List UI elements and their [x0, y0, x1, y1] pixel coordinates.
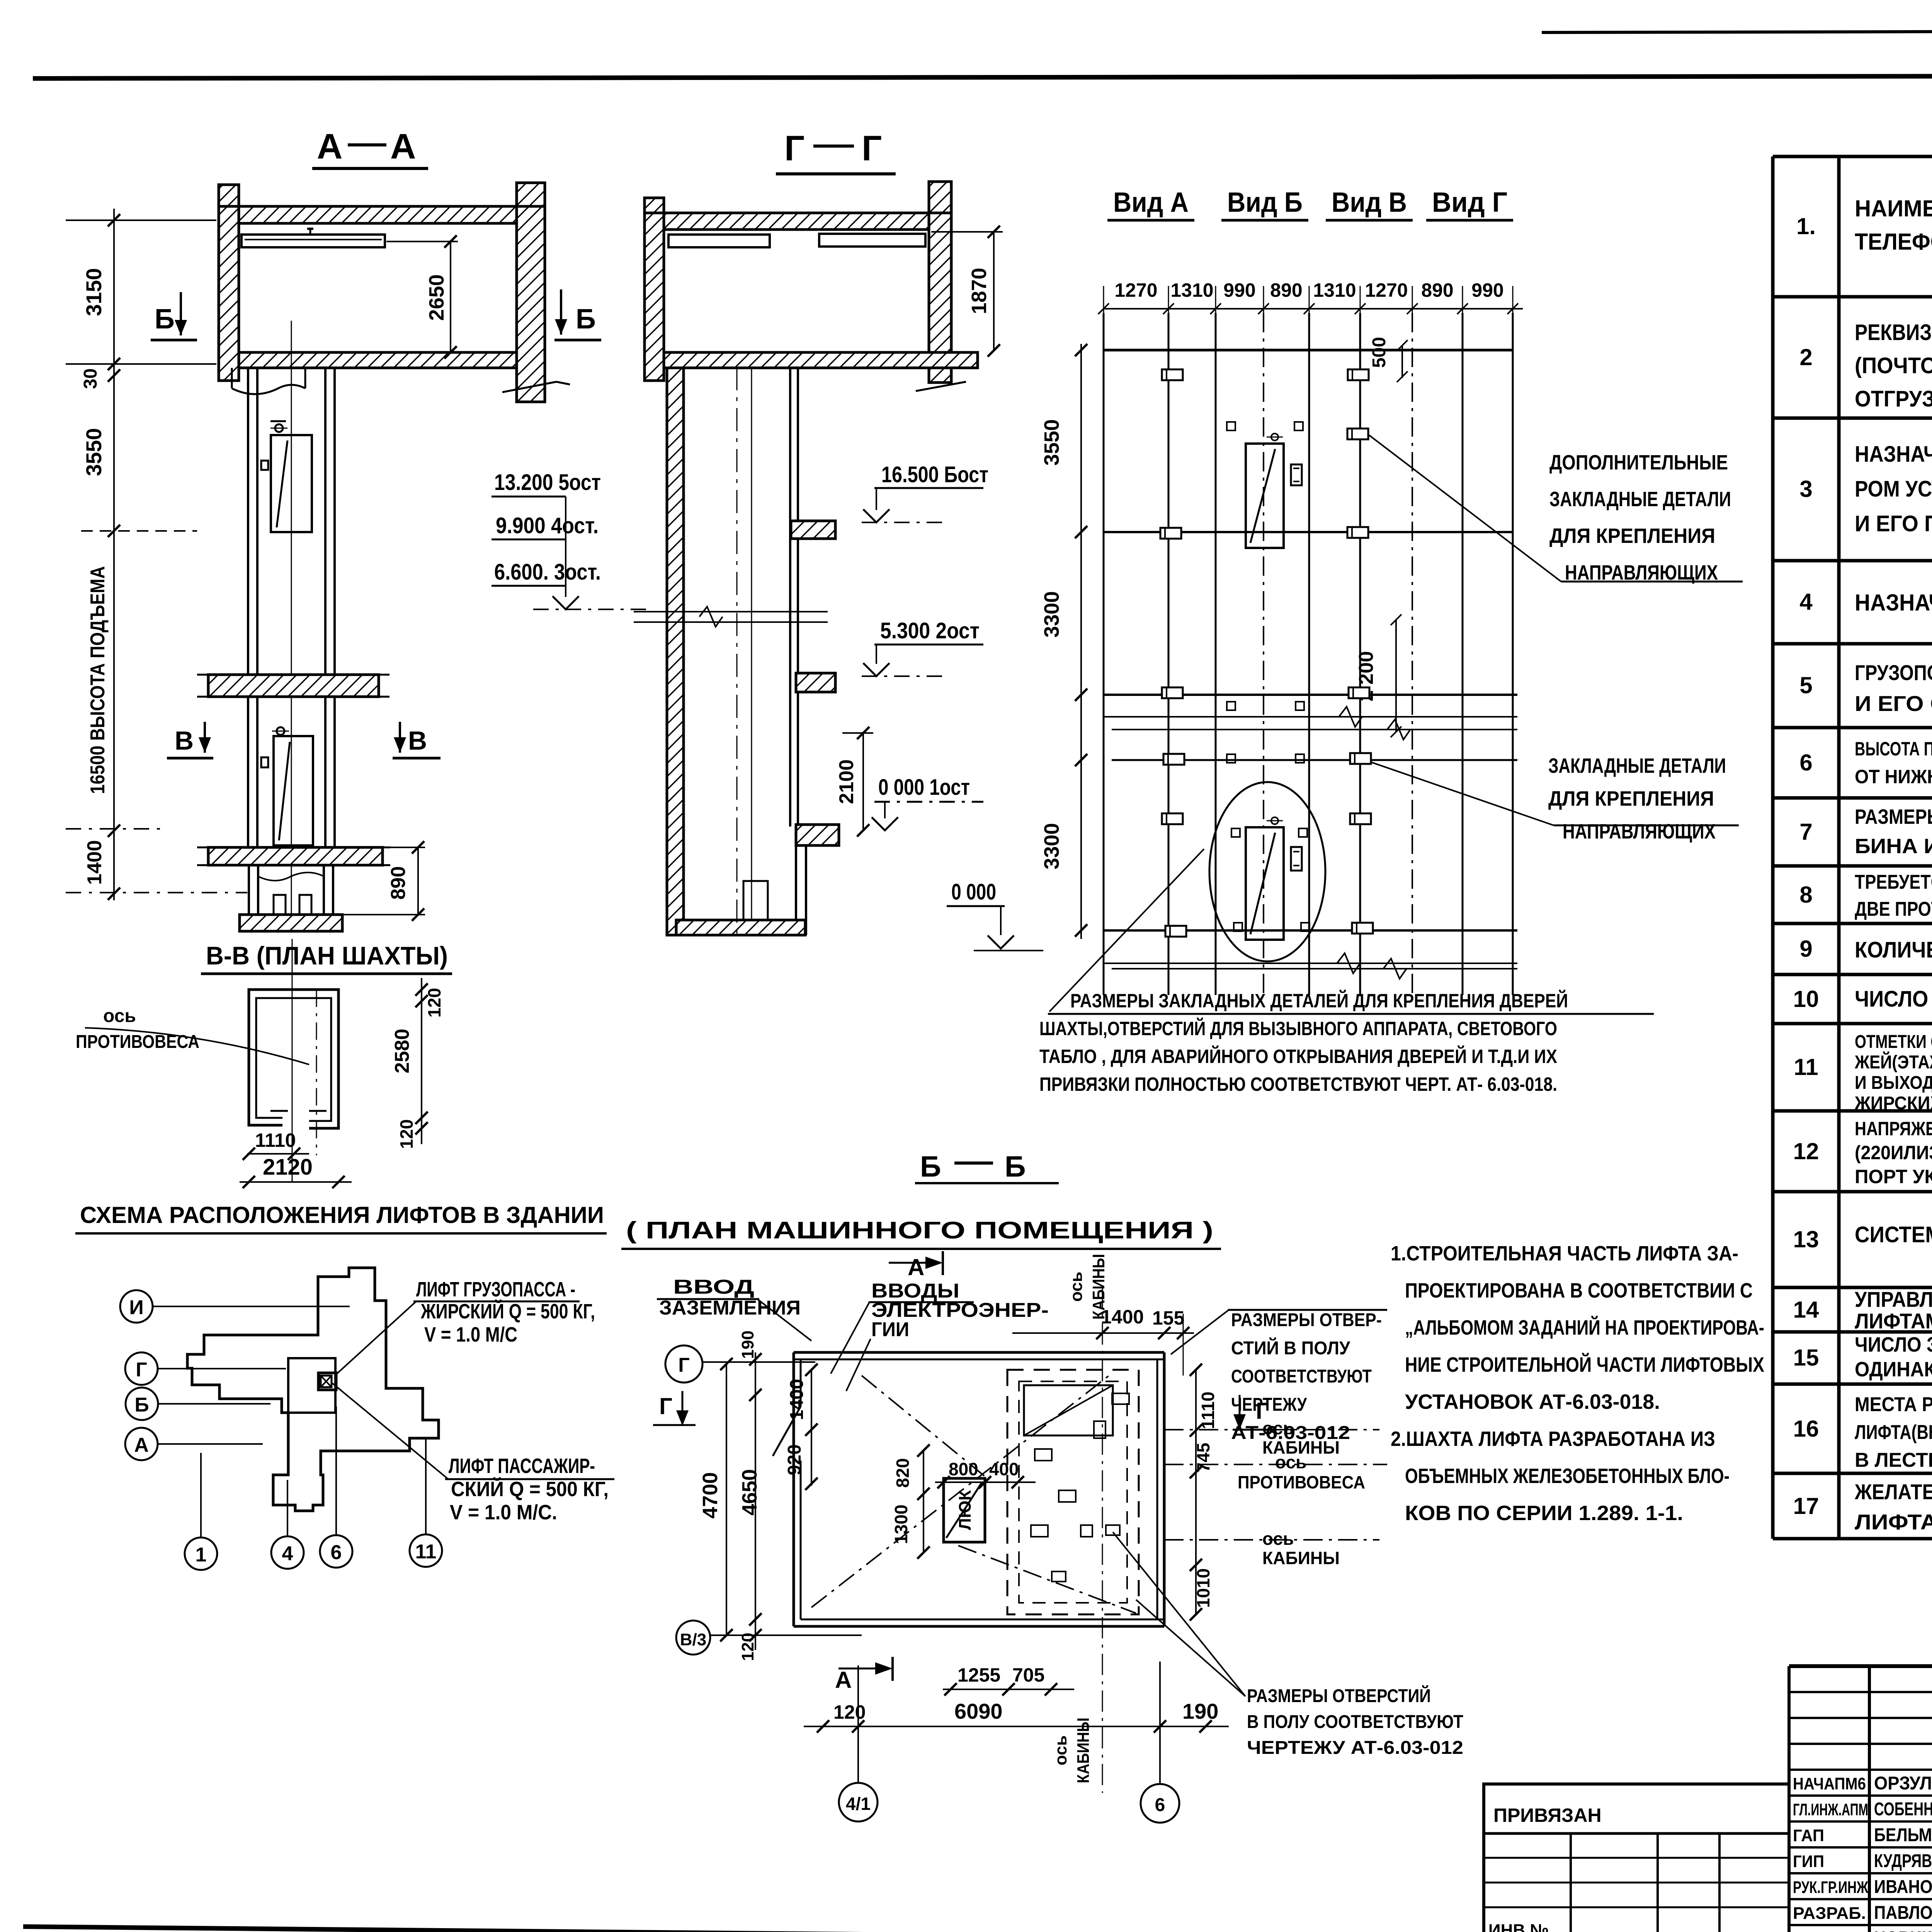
G-G shaft left wall: [667, 368, 684, 935]
svg-text:ПРОЕКТИРОВАНА В СООТВЕТСТВИИ С: ПРОЕКТИРОВАНА В СООТВЕТСТВИИ С: [1405, 1279, 1753, 1302]
A-A machine room top slab: [239, 206, 517, 223]
svg-text:ПРИВЯЗКИ ПОЛНОСТЬЮ СООТВЕТСТВУ: ПРИВЯЗКИ ПОЛНОСТЬЮ СООТВЕТСТВУЮТ ЧЕРТ. А…: [1039, 1073, 1557, 1095]
lift shaft square 2 with X: [321, 1376, 332, 1387]
svg-text:1010: 1010: [1193, 1568, 1213, 1608]
svg-text:12: 12: [1793, 1138, 1819, 1164]
svg-text:КОВ ПО СЕРИИ 1.289. 1-1.: КОВ ПО СЕРИИ 1.289. 1-1.: [1405, 1502, 1683, 1525]
svg-text:8: 8: [1799, 882, 1812, 908]
svg-text:ГИП: ГИП: [1793, 1852, 1824, 1871]
svg-text:„АЛЬБОМОМ ЗАДАНИЙ НА ПРОЕКТИРО: „АЛЬБОМОМ ЗАДАНИЙ НА ПРОЕКТИРОВА-: [1405, 1316, 1764, 1339]
svg-text:АТ-6.03-012: АТ-6.03-012: [1231, 1423, 1350, 1443]
svg-text:ЖИРСКИХ ЛИФТОВ.: ЖИРСКИХ ЛИФТОВ.: [1854, 1093, 1932, 1114]
svg-text:820: 820: [893, 1458, 913, 1488]
view cab door 1: [1246, 444, 1284, 548]
A-A left dimension line: [113, 209, 115, 900]
svg-text:500: 500: [1369, 337, 1389, 368]
svg-text:0 000 1ост: 0 000 1ост: [878, 775, 970, 800]
svg-text:МЕСТА РАСПОЛОЖЕНИЯ ШАХТЫ: МЕСТА РАСПОЛОЖЕНИЯ ШАХТЫ: [1855, 1393, 1932, 1416]
svg-text:3: 3: [1799, 476, 1812, 502]
axis circle 6: [1141, 1784, 1179, 1823]
svg-text:ЗАКЛАДНЫЕ ДЕТАЛИ: ЗАКЛАДНЫЕ ДЕТАЛИ: [1548, 754, 1726, 777]
svg-text:РАЗМЕРЫ ОТВЕР-: РАЗМЕРЫ ОТВЕР-: [1231, 1310, 1382, 1330]
svg-text:1300: 1300: [891, 1505, 911, 1544]
svg-text:120: 120: [424, 988, 444, 1018]
svg-text:3300: 3300: [1040, 823, 1063, 869]
svg-text:НАЗНАЧЕНИЕ ЗДАНИЯ, В КОТО-: НАЗНАЧЕНИЕ ЗДАНИЯ, В КОТО-: [1855, 442, 1932, 467]
lift shaft square 1: [318, 1373, 336, 1390]
svg-text:БЕЛЬМАН: БЕЛЬМАН: [1874, 1825, 1932, 1845]
svg-text:190: 190: [1182, 1699, 1218, 1723]
svg-text:А: А: [134, 1434, 149, 1456]
svg-text:ЛИФТ ГРУЗОПАССА -: ЛИФТ ГРУЗОПАССА -: [416, 1278, 575, 1301]
svg-text:ось: ось: [1275, 1452, 1306, 1472]
title block stamp: [1789, 1666, 1932, 1932]
G-G ledge 1: [791, 521, 835, 539]
G-G ledge 2: [796, 673, 835, 692]
lift machine rect: [1024, 1385, 1113, 1435]
svg-text:ЛИФТА(ВНЕ ЗДАНИЯ, ВНУТРИ ЗДАНИ: ЛИФТА(ВНЕ ЗДАНИЯ, ВНУТРИ ЗДАНИЯ,: [1855, 1421, 1932, 1444]
svg-text:ДОПОЛНИТЕЛЬНЫЕ: ДОПОЛНИТЕЛЬНЫЕ: [1549, 451, 1728, 474]
os kabiny / protivovesa labels right: [1164, 1429, 1379, 1430]
svg-text:КАБИНЫ: КАБИНЫ: [1074, 1718, 1093, 1783]
svg-text:2650: 2650: [425, 274, 448, 321]
svg-text:ЛЮК: ЛЮК: [956, 1490, 975, 1530]
svg-text:СКИЙ Q = 500 КГ,: СКИЙ Q = 500 КГ,: [451, 1477, 609, 1501]
dims 1400 920 vertical inner: [811, 1370, 812, 1486]
table grid: [1773, 156, 1932, 1539]
svg-text:ЧИСЛО ЗАКАЗЫВАЕМЫХ ЛИФТОВ: ЧИСЛО ЗАКАЗЫВАЕМЫХ ЛИФТОВ: [1855, 1333, 1932, 1356]
svg-text:2120: 2120: [263, 1155, 313, 1180]
highlight ellipse: [1209, 782, 1325, 961]
svg-text:В: В: [408, 726, 427, 755]
A-A machine room right wall: [517, 183, 545, 402]
svg-text:УПРАВЛЕНИЕ ПАССАЖИРСКИМИ: УПРАВЛЕНИЕ ПАССАЖИРСКИМИ: [1855, 1287, 1932, 1311]
svg-text:Г: Г: [136, 1359, 147, 1381]
svg-text:ГАП: ГАП: [1793, 1826, 1824, 1845]
svg-text:Б: Б: [920, 1150, 941, 1183]
svg-text:10: 10: [1793, 986, 1819, 1012]
svg-text:Н КОНТР: Н КОНТР: [1793, 1929, 1866, 1932]
svg-text:ГРУЗОПОДЪЕМНОСТЬ ЛИФТА В КГ: ГРУЗОПОДЪЕМНОСТЬ ЛИФТА В КГ: [1855, 660, 1932, 685]
svg-text:Г: Г: [659, 1393, 672, 1419]
svg-text:А: А: [317, 127, 342, 166]
svg-text:ЗАКЛАДНЫЕ ДЕТАЛИ: ЗАКЛАДНЫЕ ДЕТАЛИ: [1549, 488, 1731, 511]
svg-text:ТРЕБУЕТСЯ ЛИ ВЫХОД ИЗ КАБИНЫ В: ТРЕБУЕТСЯ ЛИ ВЫХОД ИЗ КАБИНЫ В: [1855, 871, 1932, 893]
left dims of view: [1080, 344, 1082, 939]
svg-text:0 000: 0 000: [951, 879, 996, 905]
svg-text:4650: 4650: [738, 1469, 761, 1515]
hatch luk: [944, 1478, 985, 1542]
svg-text:ГЛ.ИНЖ.АПМ: ГЛ.ИНЖ.АПМ: [1793, 1800, 1868, 1819]
svg-text:2100: 2100: [835, 759, 858, 804]
view grid verticals: [1103, 313, 1105, 995]
svg-text:16: 16: [1793, 1416, 1819, 1442]
svg-text:Б: Б: [576, 304, 596, 335]
svg-text:КОЛИЧЕСТВО ДВЕРЕЙ ШАХТЫ: КОЛИЧЕСТВО ДВЕРЕЙ ШАХТЫ: [1855, 937, 1932, 963]
svg-text:5: 5: [1799, 672, 1812, 698]
G-G centerline: [736, 367, 738, 935]
embedded anchor plates: [1162, 369, 1183, 380]
svg-text:В: В: [175, 726, 194, 755]
A-A pit floor: [240, 915, 342, 931]
A-A shaft walls: [247, 368, 249, 865]
G-G pit floor: [676, 920, 805, 935]
svg-text:В ЛЕСТНИЧНОЙ КЛЕТКЕ): В ЛЕСТНИЧНОЙ КЛЕТКЕ): [1855, 1449, 1932, 1471]
svg-text:705: 705: [1012, 1664, 1044, 1686]
svg-text:Б: Б: [134, 1394, 149, 1416]
svg-text:И ЕГО СКОРОСТЬ В М/С.: И ЕГО СКОРОСТЬ В М/С.: [1855, 691, 1932, 716]
svg-text:1870: 1870: [968, 268, 991, 314]
small anchor squares: [1227, 422, 1235, 430]
axis circles bottom: [185, 1537, 217, 1570]
axis circle 4/1: [839, 1783, 878, 1821]
svg-text:РАЗМЕРЫ КАБИНЫ(ШИРИНА И ГЛУ-: РАЗМЕРЫ КАБИНЫ(ШИРИНА И ГЛУ-: [1855, 805, 1932, 828]
svg-text:1310: 1310: [1170, 279, 1213, 301]
svg-text:11: 11: [415, 1541, 437, 1563]
svg-text:И ЕГО ПОЧТОВЫЙ АДРЕС: И ЕГО ПОЧТОВЫЙ АДРЕС: [1855, 511, 1932, 536]
svg-text:16.500 Бост: 16.500 Бост: [881, 462, 988, 487]
G-G pit block: [743, 881, 768, 920]
svg-text:ОДИНАКОВОЙ ХАРАКТЕРИСТИКИ: ОДИНАКОВОЙ ХАРАКТЕРИСТИКИ: [1855, 1357, 1932, 1381]
privyazan box: [1484, 1784, 1789, 1932]
svg-text:ось: ось: [1051, 1735, 1070, 1765]
svg-text:14: 14: [1793, 1297, 1819, 1323]
svg-text:13: 13: [1793, 1226, 1819, 1252]
G-G machine beams: [668, 235, 770, 247]
svg-text:4: 4: [1799, 589, 1813, 615]
svg-text:1: 1: [196, 1544, 207, 1566]
svg-text:ДЛЯ КРЕПЛЕНИЯ: ДЛЯ КРЕПЛЕНИЯ: [1549, 524, 1715, 548]
svg-text:(ПОЧТОВЫЕ,ТЕЛЕГРАФНЫЕ,: (ПОЧТОВЫЕ,ТЕЛЕГРАФНЫЕ,: [1855, 353, 1932, 378]
svg-text:9: 9: [1799, 936, 1812, 962]
svg-text:1400: 1400: [787, 1379, 807, 1420]
svg-text:ЖЕЛАТЕЛЬНЫЙ СРОК ПОСТАВКИ: ЖЕЛАТЕЛЬНЫЙ СРОК ПОСТАВКИ: [1854, 1480, 1932, 1504]
svg-text:Г: Г: [678, 1354, 689, 1376]
leader to paragraph: [1049, 849, 1204, 1012]
svg-text:И ВЫХОДОМ ИЗ ЗДАНИЯ) ДЛЯ ПАССА: И ВЫХОДОМ ИЗ ЗДАНИЯ) ДЛЯ ПАССА-: [1855, 1073, 1932, 1093]
svg-text:155: 155: [1152, 1307, 1184, 1329]
G-G machine room top slab: [664, 213, 929, 230]
svg-text:ГИИ: ГИИ: [871, 1318, 909, 1341]
svg-text:ПОРТ УКАЗАТЬ И ЧАСТОТУ ТОКА.: ПОРТ УКАЗАТЬ И ЧАСТОТУ ТОКА.: [1855, 1166, 1932, 1187]
dim 500 right: [1401, 345, 1403, 378]
svg-text:890: 890: [1421, 279, 1453, 301]
diagonal cable runs: [811, 1376, 1109, 1607]
view top dimension row: [1104, 308, 1523, 310]
svg-text:ДЛЯ КРЕПЛЕНИЯ: ДЛЯ КРЕПЛЕНИЯ: [1548, 787, 1714, 810]
svg-text:1400: 1400: [83, 840, 106, 885]
svg-text:В/3: В/3: [680, 1630, 706, 1649]
svg-text:ВЫСОТА ПОДЪЕМА КАБИНЫ В М (ВЫС: ВЫСОТА ПОДЪЕМА КАБИНЫ В М (ВЫСОТА: [1855, 738, 1932, 760]
view cab door 2: [1246, 827, 1284, 940]
svg-text:1.: 1.: [1796, 213, 1816, 239]
machine plan walls: [794, 1351, 1164, 1354]
svg-text:16500 ВЫСОТА ПОДЪЕМА: 16500 ВЫСОТА ПОДЪЕМА: [87, 566, 109, 794]
svg-text:ПРОТИВОВЕСА: ПРОТИВОВЕСА: [1238, 1472, 1365, 1492]
bottom frame line: [23, 1927, 1789, 1932]
svg-text:7: 7: [1799, 819, 1812, 845]
svg-text:6: 6: [1155, 1795, 1165, 1815]
B-B right dims: [421, 978, 422, 1144]
svg-text:5.300 2ост: 5.300 2ост: [880, 618, 980, 643]
svg-text:РАЗРАБ.: РАЗРАБ.: [1793, 1904, 1866, 1923]
left dims 4700 4650: [726, 1364, 727, 1635]
A-A floor slab level 5: [208, 675, 379, 697]
building outline: [187, 1268, 439, 1511]
B-B shaft walls U-shape: [249, 990, 338, 1128]
svg-text:Вид Г: Вид Г: [1432, 187, 1507, 218]
svg-text:НАИМЕНОВАНИЕ , АДРЕС И: НАИМЕНОВАНИЕ , АДРЕС И: [1855, 196, 1932, 221]
svg-text:990: 990: [1471, 279, 1503, 301]
svg-text:745: 745: [1193, 1443, 1213, 1473]
svg-text:800: 800: [949, 1459, 978, 1479]
svg-text:СОБЕННИКОВ: СОБЕННИКОВ: [1874, 1799, 1932, 1820]
svg-text:30: 30: [80, 368, 101, 389]
svg-text:СХЕМА РАСПОЛОЖЕНИЯ ЛИФТОВ В ЗД: СХЕМА РАСПОЛОЖЕНИЯ ЛИФТОВ В ЗДАНИИ: [80, 1202, 604, 1228]
svg-text:Вид Б: Вид Б: [1227, 187, 1303, 218]
svg-text:ОТГРУЗОЧНЫЕ): ОТГРУЗОЧНЫЕ): [1855, 386, 1932, 412]
A-A cab 1: [271, 435, 312, 532]
svg-text:ЧИСЛО ОСТАНОВОК КАБИНЫ: ЧИСЛО ОСТАНОВОК КАБИНЫ: [1855, 986, 1932, 1012]
svg-text:РАЗМЕРЫ ЗАКЛАДНЫХ ДЕТАЛЕЙ ДЛЯ: РАЗМЕРЫ ЗАКЛАДНЫХ ДЕТАЛЕЙ ДЛЯ КРЕПЛЕНИЯ …: [1070, 990, 1568, 1012]
svg-text:4/1: 4/1: [846, 1794, 871, 1814]
svg-text:ОБЪЕМНЫХ ЖЕЛЕЗОБЕТОННЫХ БЛО-: ОБЪЕМНЫХ ЖЕЛЕЗОБЕТОННЫХ БЛО-: [1405, 1464, 1730, 1488]
svg-text:1270: 1270: [1114, 279, 1157, 301]
svg-text:Б: Б: [155, 304, 175, 335]
svg-text:3150: 3150: [82, 268, 106, 316]
svg-text:920: 920: [784, 1444, 805, 1475]
dims 820 1300: [923, 1451, 924, 1553]
svg-text:2.ШАХТА ЛИФТА РАЗРАБОТАНА ИЗ: 2.ШАХТА ЛИФТА РАЗРАБОТАНА ИЗ: [1391, 1427, 1715, 1451]
A-A machine beam: [241, 235, 385, 247]
svg-text:НАЗНАЧЕНИЕ ЛИФТА: НАЗНАЧЕНИЕ ЛИФТА: [1855, 590, 1932, 616]
svg-text:890: 890: [387, 866, 410, 900]
lift tower: [288, 1358, 335, 1413]
svg-text:1310: 1310: [1313, 279, 1356, 301]
svg-text:3550: 3550: [1040, 419, 1063, 466]
svg-text:6090: 6090: [954, 1699, 1003, 1723]
svg-text:2: 2: [1799, 344, 1812, 370]
small floor openings: [1035, 1449, 1052, 1461]
svg-text:Г: Г: [862, 129, 882, 168]
svg-text:ДВЕ ПРОТИВОПОЛОЖНЫЕ СТОРОНЫ: ДВЕ ПРОТИВОПОЛОЖНЫЕ СТОРОНЫ: [1855, 898, 1932, 920]
svg-text:ИНВ.№: ИНВ.№: [1488, 1921, 1549, 1932]
A-A pit buffers: [274, 895, 286, 915]
A-A machine room left wall: [219, 185, 239, 381]
svg-text:СИСТЕМА УПРАВЛЕНИЯ: СИСТЕМА УПРАВЛЕНИЯ: [1855, 1222, 1932, 1247]
svg-text:400: 400: [989, 1459, 1019, 1479]
G-G machine room floor slab: [664, 352, 978, 368]
svg-text:ВВОД: ВВОД: [673, 1276, 754, 1298]
svg-text:4700: 4700: [699, 1472, 722, 1519]
G-G dim 1870: [993, 232, 995, 350]
svg-text:И: И: [129, 1296, 143, 1319]
svg-text:ЖИРСКИЙ Q = 500 КГ,: ЖИРСКИЙ Q = 500 КГ,: [420, 1299, 595, 1323]
svg-text:РОМ УСТАНАВЛИВАЕТСЯ ЛИФТ,: РОМ УСТАНАВЛИВАЕТСЯ ЛИФТ,: [1855, 476, 1932, 502]
svg-text:890: 890: [1270, 279, 1302, 301]
svg-text:6: 6: [331, 1541, 342, 1564]
A-A dim 890: [417, 847, 419, 915]
svg-text:120: 120: [833, 1701, 866, 1723]
svg-text:( ПЛАН МАШИННОГО ПОМЕЩЕНИЯ ): ( ПЛАН МАШИННОГО ПОМЕЩЕНИЯ ): [626, 1217, 1213, 1244]
svg-text:9.900 4ост.: 9.900 4ост.: [496, 513, 599, 538]
B-B axis: [292, 939, 293, 1182]
svg-text:Вид А: Вид А: [1113, 187, 1189, 218]
svg-text:Г: Г: [784, 129, 804, 168]
svg-text:ЧЕРТЕЖУ: ЧЕРТЕЖУ: [1231, 1395, 1307, 1415]
svg-text:190: 190: [738, 1330, 757, 1359]
secondary top line: [1542, 30, 1932, 32]
A-A machine room floor slab: [239, 352, 517, 368]
svg-text:ЖЕЙ(ЭТАЖЕЙ,СВЯЗАННЫХ С ВХОДОМ.: ЖЕЙ(ЭТАЖЕЙ,СВЯЗАННЫХ С ВХОДОМ.: [1854, 1051, 1932, 1073]
svg-text:А: А: [835, 1667, 852, 1693]
svg-text:1270: 1270: [1365, 279, 1408, 301]
right dims 1110 745 1010: [1195, 1370, 1197, 1615]
svg-text:1110: 1110: [255, 1129, 296, 1151]
svg-text:БИНА И ВЫСОТА ) В ММ.: БИНА И ВЫСОТА ) В ММ.: [1855, 835, 1932, 858]
svg-text:В ПОЛУ СООТВЕТСТВУЮТ: В ПОЛУ СООТВЕТСТВУЮТ: [1247, 1712, 1463, 1732]
svg-text:НАЧАПМ6: НАЧАПМ6: [1793, 1774, 1866, 1793]
svg-text:3550: 3550: [82, 428, 106, 476]
page top frame line: [33, 75, 1932, 78]
svg-text:ОТ НИЖНЕЙ ДО ВЕРХ ОСТАНОВОК): ОТ НИЖНЕЙ ДО ВЕРХ ОСТАНОВОК): [1855, 765, 1932, 787]
svg-text:1110: 1110: [1198, 1391, 1218, 1429]
svg-text:РАЗМЕРЫ ОТВЕРСТИЙ: РАЗМЕРЫ ОТВЕРСТИЙ: [1247, 1685, 1431, 1706]
G-G dim 2100: [862, 733, 864, 830]
A-A cab 2: [274, 736, 313, 845]
svg-text:2580: 2580: [391, 1029, 413, 1073]
G-G shaft right wall: [789, 368, 791, 827]
A-A pit walls: [248, 865, 250, 915]
G-G mid break lines: [634, 611, 828, 612]
svg-text:ПРОТИВОВЕСА: ПРОТИВОВЕСА: [76, 1032, 199, 1052]
svg-text:ось: ось: [1067, 1272, 1086, 1302]
svg-text:1400: 1400: [1101, 1306, 1144, 1328]
svg-text:УСТАНОВОК АТ-6.03-018.: УСТАНОВОК АТ-6.03-018.: [1405, 1390, 1660, 1413]
svg-text:ЛИФТА (ГОД , КВАРТАЛ): ЛИФТА (ГОД , КВАРТАЛ): [1855, 1510, 1932, 1534]
svg-text:11: 11: [1794, 1054, 1818, 1080]
G-G machine room left wall: [645, 198, 664, 381]
dim 2200: [1395, 620, 1397, 732]
svg-text:Вид В: Вид В: [1332, 187, 1407, 218]
shaft dashed outline: [1007, 1370, 1139, 1614]
svg-text:ТАБЛО , ДЛЯ АВАРИЙНОГО ОТКРЫВА: ТАБЛО , ДЛЯ АВАРИЙНОГО ОТКРЫВАНИЯ ДВЕРЕЙ…: [1039, 1045, 1557, 1067]
svg-text:НИЕ СТРОИТЕЛЬНОЙ ЧАСТИ ЛИФТОВЫ: НИЕ СТРОИТЕЛЬНОЙ ЧАСТИ ЛИФТОВЫХ: [1405, 1353, 1764, 1376]
axis circles left: [120, 1290, 153, 1323]
B-B counterweight axis: [316, 990, 317, 1155]
A-A shaft centerline: [291, 321, 292, 931]
svg-text:ось: ось: [1262, 1529, 1294, 1549]
svg-text:17: 17: [1793, 1493, 1819, 1519]
svg-text:ось: ось: [103, 1006, 136, 1026]
svg-text:ЛИФТАМИ.: ЛИФТАМИ.: [1855, 1309, 1932, 1333]
svg-text:1.СТРОИТЕЛЬНАЯ ЧАСТЬ ЛИФТА ЗА-: 1.СТРОИТЕЛЬНАЯ ЧАСТЬ ЛИФТА ЗА-: [1391, 1242, 1738, 1265]
svg-text:ЧЕРТЕЖУ АТ-6.03-012: ЧЕРТЕЖУ АТ-6.03-012: [1247, 1738, 1463, 1758]
svg-text:НАПРЯЖЕНИЕ СЕТИ, ПИТАЮЩЕЙ ЛИФТ: НАПРЯЖЕНИЕ СЕТИ, ПИТАЮЩЕЙ ЛИФТ: [1855, 1117, 1932, 1139]
A-A shaft neck: [231, 368, 233, 388]
A-A dim 2650: [450, 241, 451, 352]
svg-text:РУК.ГР.ИНЖ: РУК.ГР.ИНЖ: [1793, 1878, 1868, 1897]
svg-text:КУДРЯВЦЕВА: КУДРЯВЦЕВА: [1874, 1851, 1932, 1871]
svg-text:120: 120: [738, 1633, 757, 1661]
svg-text:4: 4: [282, 1543, 293, 1565]
leader to level line: [565, 497, 566, 597]
svg-text:ИВАНОВА: ИВАНОВА: [1874, 1877, 1932, 1897]
G-G machine room right wall: [929, 182, 951, 383]
svg-text:6.600. 3ост.: 6.600. 3ост.: [494, 560, 601, 585]
svg-text:V = 1.0 М/С: V = 1.0 М/С: [424, 1323, 517, 1346]
svg-text:ПАВЛОВА: ПАВЛОВА: [1874, 1903, 1932, 1923]
svg-text:990: 990: [1223, 279, 1255, 301]
svg-text:1255: 1255: [957, 1664, 1000, 1686]
svg-text:ШАХТЫ,ОТВЕРСТИЙ ДЛЯ ВЫЗЫВНОГО: ШАХТЫ,ОТВЕРСТИЙ ДЛЯ ВЫЗЫВНОГО АППАРАТА, …: [1039, 1017, 1557, 1039]
machine plan door swing: [773, 1406, 801, 1456]
svg-text:НАПРАВЛЯЮЩИХ: НАПРАВЛЯЮЩИХ: [1563, 820, 1716, 843]
svg-text:15: 15: [1793, 1345, 1819, 1371]
svg-text:РЕКВИЗИТЫ ГРУЗОПОЛУЧАТЕЛЯ: РЕКВИЗИТЫ ГРУЗОПОЛУЧАТЕЛЯ: [1855, 320, 1932, 345]
svg-text:ОРЗУЛ: ОРЗУЛ: [1874, 1773, 1932, 1794]
svg-text:6: 6: [1799, 750, 1812, 776]
svg-text:А: А: [390, 127, 416, 166]
svg-text:ОТМЕТКИ ОСНОВНЫХ ПОСАДОЧНЫХ ЭТ: ОТМЕТКИ ОСНОВНЫХ ПОСАДОЧНЫХ ЭТА-: [1855, 1032, 1932, 1052]
axis circle G left: [665, 1345, 702, 1383]
os kabiny vertical: [1102, 1287, 1103, 1793]
svg-text:ТЕЛЕФОН ЗАКАЗЧИКА: ТЕЛЕФОН ЗАКАЗЧИКА: [1855, 229, 1932, 255]
svg-text:Б: Б: [1005, 1150, 1026, 1183]
svg-text:СТИЙ В ПОЛУ: СТИЙ В ПОЛУ: [1231, 1337, 1350, 1359]
svg-text:13.200 5ост: 13.200 5ост: [494, 470, 601, 495]
svg-text:В-В (ПЛАН ШАХТЫ): В-В (ПЛАН ШАХТЫ): [206, 941, 448, 970]
view floor lines: [1104, 349, 1513, 352]
axis circle V/3: [676, 1621, 710, 1655]
svg-text:3300: 3300: [1040, 591, 1063, 638]
G-G ledge 3: [796, 825, 839, 845]
svg-text:120: 120: [396, 1119, 417, 1149]
svg-text:ЛИФТ ПАССАЖИР-: ЛИФТ ПАССАЖИР-: [449, 1454, 595, 1478]
svg-text:ПРИВЯЗАН: ПРИВЯЗАН: [1493, 1804, 1602, 1826]
svg-text:СООТВЕТСТВУЮТ: СООТВЕТСТВУЮТ: [1231, 1366, 1372, 1387]
A-A floor slab level 1: [208, 847, 383, 865]
svg-text:(220ИЛИ380В) ПРИ ЗАКАЗЕ НА ЭКС: (220ИЛИ380В) ПРИ ЗАКАЗЕ НА ЭКС-: [1855, 1142, 1932, 1163]
svg-text:V = 1.0 М/С.: V = 1.0 М/С.: [450, 1501, 557, 1524]
svg-text:КАБИНЫ: КАБИНЫ: [1262, 1548, 1340, 1568]
svg-text:А: А: [908, 1254, 924, 1280]
svg-text:НОВИКОВА: НОВИКОВА: [1874, 1928, 1932, 1932]
